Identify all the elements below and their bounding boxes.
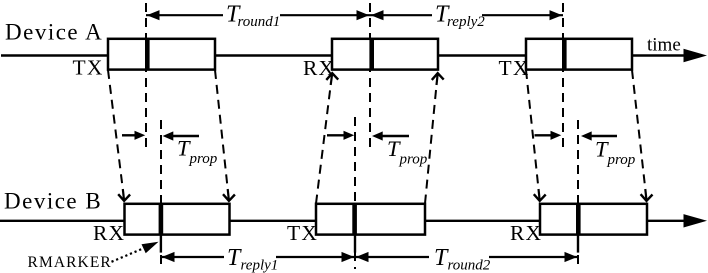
dimension arrow T_round1 <box>146 14 370 16</box>
svg-text:prop: prop <box>607 152 636 168</box>
dashed slant wire A-TX1 right edge to B-RX1 right edge <box>215 70 228 189</box>
packet box A TX2 <box>526 39 632 70</box>
timeline Device B <box>0 220 687 222</box>
svg-text:reply1: reply1 <box>241 258 279 273</box>
T_prop arrow pair 1 <box>122 134 136 136</box>
svg-text:TX: TX <box>287 221 318 245</box>
svg-text:RX: RX <box>93 221 125 245</box>
RMARKER bar B RX2 <box>576 204 581 235</box>
dashed marker line B3 <box>577 120 579 269</box>
dashed slant wire A-TX1 left edge to B-RX1 left edge <box>108 70 123 189</box>
svg-text:Device B: Device B <box>4 189 102 214</box>
RMARKER bar B RX1 extension <box>160 235 162 253</box>
svg-text:TX: TX <box>499 56 530 80</box>
svg-text:RMARKER: RMARKER <box>28 254 112 271</box>
svg-text:prop: prop <box>189 151 218 167</box>
svg-text:RX: RX <box>510 221 542 245</box>
svg-text:prop: prop <box>399 152 428 168</box>
packet box A TX1 <box>108 39 215 70</box>
RMARKER bar B RX2 extension <box>577 235 579 253</box>
packet box B RX1 <box>125 204 230 235</box>
RMARKER bar A TX1 <box>145 39 150 70</box>
dashed marker line A3 <box>562 3 564 148</box>
dashed slant wire A-TX2 right edge to B-RX2 right edge <box>632 70 645 189</box>
packet box A RX <box>332 39 438 70</box>
timeline Device A <box>1 54 687 56</box>
dashed slant wire A-TX2 left edge to B-RX2 left edge <box>526 70 539 189</box>
T_prop arrow pair 2 <box>327 134 345 136</box>
dashed marker line B1 <box>160 120 162 269</box>
label T_round2 <box>429 246 489 268</box>
T_prop arrow pair 3 <box>535 134 553 136</box>
dashed slant wire B-TX right edge to A-RX right edge <box>425 85 437 204</box>
dashed marker line A2 <box>369 3 371 148</box>
time axis arrowhead A <box>684 49 708 62</box>
RMARKER bar B TX <box>352 204 357 235</box>
svg-text:round1: round1 <box>238 14 281 30</box>
svg-text:TX: TX <box>73 55 104 79</box>
label T_round1 <box>223 3 280 27</box>
svg-text:reply2: reply2 <box>447 14 485 30</box>
RMARKER bar B TX extension <box>354 235 356 253</box>
RMARKER bar A RX <box>369 39 374 70</box>
dimension arrow T_reply2 <box>370 14 563 16</box>
RMARKER pointer arrowhead <box>142 242 159 254</box>
dashed slant wire B-TX left edge to A-RX left edge <box>316 85 331 204</box>
packet box B RX2 <box>540 204 647 235</box>
label T_reply1 <box>224 246 276 268</box>
svg-text:time: time <box>647 35 681 56</box>
svg-text:round2: round2 <box>448 258 491 273</box>
dashed marker line A1 <box>145 3 147 148</box>
RMARKER bar B RX1 <box>159 204 164 235</box>
svg-text:RX: RX <box>303 56 335 80</box>
dashed marker line B2 <box>354 117 356 269</box>
time axis arrowhead B <box>684 214 708 227</box>
packet box B TX <box>316 204 425 235</box>
dimension arrow T_round2 <box>355 256 578 258</box>
RMARKER pointer dotted wire <box>112 249 144 262</box>
label T_reply2 <box>432 3 482 27</box>
dimension arrow T_reply1 <box>161 256 355 258</box>
RMARKER bar A TX2 <box>562 39 567 70</box>
svg-text:Device A: Device A <box>5 20 103 45</box>
